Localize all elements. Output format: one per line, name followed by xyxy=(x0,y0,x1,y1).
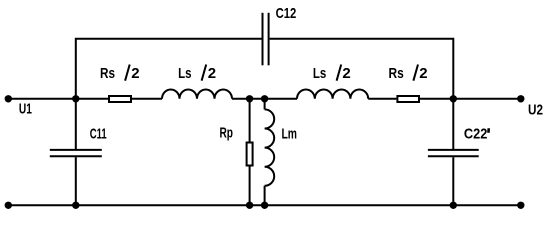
node: C11 junction on bottom line xyxy=(72,202,79,209)
node: Lm junction on bottom line xyxy=(261,202,268,209)
wire: middle line between right Ls/2 and right Rs/2 xyxy=(368,98,396,100)
resistor Rs/2 (left) xyxy=(109,96,131,102)
capacitor C12 xyxy=(263,13,269,66)
svg-text:U1: U1 xyxy=(19,101,32,118)
node: bottom right terminal xyxy=(517,202,524,209)
svg-text:Ls: Ls xyxy=(178,65,191,82)
svg-text:Rs: Rs xyxy=(389,65,404,82)
wire: Rp branch upper segment xyxy=(249,99,251,142)
svg-text:C11: C11 xyxy=(90,126,107,143)
capacitor C22' xyxy=(428,150,479,156)
node: right junction on middle line xyxy=(450,95,457,102)
svg-text:Lm: Lm xyxy=(282,125,298,142)
svg-text:2: 2 xyxy=(131,65,139,82)
node: left junction on middle line xyxy=(72,95,79,102)
wire: top bridge left segment (left node up and over to C12) xyxy=(76,39,262,99)
svg-text:Rs: Rs xyxy=(100,65,115,82)
svg-text:U2: U2 xyxy=(528,102,543,119)
wire: C22' branch lower segment xyxy=(452,157,454,205)
wire: top bridge right segment (C12 over and down to right node) xyxy=(270,39,454,99)
label Ls/2 (left) xyxy=(178,65,216,82)
label Ls/2 (right) xyxy=(313,65,351,82)
svg-text:C12: C12 xyxy=(276,5,297,22)
svg-text:Ls: Ls xyxy=(313,65,326,82)
wire: middle line center segment (through Rp and Lm nodes) xyxy=(232,98,297,100)
svg-text:C22: C22 xyxy=(464,126,488,143)
node: Rp junction on bottom line xyxy=(246,202,253,209)
wire: bottom line xyxy=(8,204,521,206)
node: bottom left terminal xyxy=(5,202,12,209)
wire: Rp branch lower segment xyxy=(249,167,251,206)
resistor Rp xyxy=(247,143,253,166)
node: U1 terminal (top left) xyxy=(5,95,12,102)
inductor Ls/2 (right) xyxy=(297,90,368,99)
wire: C11 branch lower segment xyxy=(75,157,77,205)
node: U2 terminal (top right) xyxy=(517,95,524,102)
node: C22' junction on bottom line xyxy=(450,202,457,209)
resistor Rs/2 (right) xyxy=(397,96,419,102)
svg-text:2: 2 xyxy=(342,65,350,82)
label C22' xyxy=(464,126,489,143)
svg-text:2: 2 xyxy=(208,65,216,82)
wire: middle line right segment (Rs/2 to U2 terminal) xyxy=(420,98,521,100)
node: Rp junction on middle line xyxy=(246,95,253,102)
wire: C11 branch upper segment xyxy=(75,99,77,149)
label Rs/2 (left) xyxy=(100,65,140,82)
wire: middle line left segment (U1 terminal to Rs/2) xyxy=(8,98,108,100)
inductor Lm xyxy=(265,109,275,185)
wire: Lm branch lower segment xyxy=(264,186,266,206)
inductor Ls/2 (left) xyxy=(162,90,232,99)
svg-text:2: 2 xyxy=(419,65,427,82)
wire: C22' branch upper segment xyxy=(452,99,454,149)
label Rs/2 (right) xyxy=(389,65,428,82)
wire: Lm branch upper segment xyxy=(264,99,266,110)
capacitor C11 xyxy=(50,150,102,156)
wire: middle line between left Rs/2 and left Ls/2 xyxy=(132,98,162,100)
node: Lm junction on middle line xyxy=(261,95,268,102)
svg-text:Rp: Rp xyxy=(220,125,234,142)
